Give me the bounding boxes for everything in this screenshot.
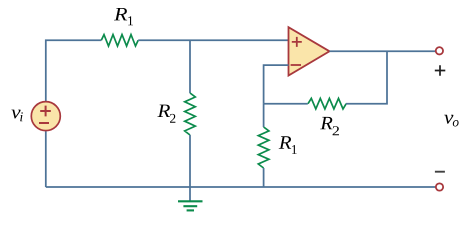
label R2 middle bbox=[157, 105, 175, 123]
wire R1 branch lower bbox=[263, 168, 265, 187]
plus output bbox=[435, 65, 446, 75]
wire feedback left segment bbox=[264, 103, 308, 105]
label vo bbox=[444, 115, 458, 127]
wire source bottom to bottom rail bbox=[45, 131, 47, 187]
wire ground stub bbox=[189, 187, 191, 201]
op-amp U1 bbox=[289, 27, 330, 75]
wire bottom rail bbox=[46, 186, 436, 188]
ground bbox=[178, 201, 203, 210]
terminal bottom bbox=[436, 183, 443, 190]
resistor R1 (top) bbox=[101, 35, 138, 46]
wire output bbox=[330, 50, 436, 52]
voltage source vi bbox=[31, 102, 60, 131]
label R1 top bbox=[114, 8, 133, 25]
wire inverting input bbox=[264, 65, 289, 104]
wire R2 branch upper bbox=[189, 40, 191, 93]
terminal top bbox=[436, 47, 443, 54]
wire R2 branch lower bbox=[189, 135, 191, 187]
label R1 bottom bbox=[279, 136, 297, 154]
wire R1 branch upper bbox=[263, 104, 265, 127]
wire from R1 to op-amp noninverting input bbox=[138, 39, 288, 41]
label vi bbox=[11, 110, 22, 122]
label R2 feedback bbox=[320, 117, 339, 135]
resistor R2 (middle vertical) bbox=[185, 93, 196, 135]
wire top from source to R1 bbox=[46, 40, 102, 102]
wire feedback right segment and riser bbox=[346, 51, 387, 103]
resistor R1 (bottom vertical) bbox=[258, 127, 269, 168]
minus output bbox=[435, 171, 445, 173]
resistor R2 (feedback) bbox=[308, 98, 346, 109]
